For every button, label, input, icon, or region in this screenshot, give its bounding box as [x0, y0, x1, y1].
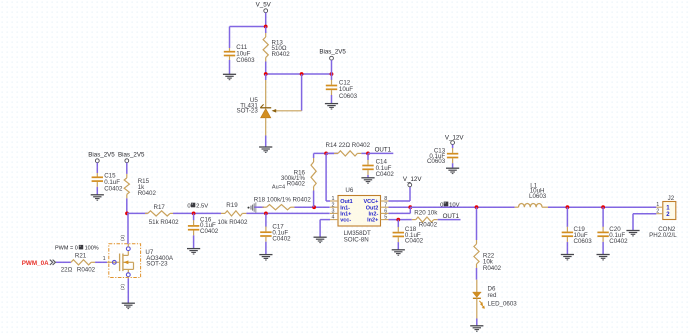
svg-text:In1+: In1+	[340, 212, 351, 218]
net label 0-10V	[440, 202, 460, 209]
junction LED branch	[475, 205, 479, 209]
LED D6	[473, 280, 485, 319]
op-amp U6 LM358DT body	[338, 196, 381, 227]
svg-text:SOT-23: SOT-23	[236, 108, 258, 115]
svg-text:SOIC-8N: SOIC-8N	[344, 236, 369, 243]
ground LED	[470, 326, 483, 331]
wire pin6 In2-	[389, 212, 411, 214]
wire pin4	[320, 219, 330, 221]
junction C17 tap	[264, 212, 268, 216]
wire Bias_2V5 rail	[266, 73, 332, 75]
ground C19	[561, 255, 574, 260]
svg-text:J2: J2	[668, 195, 675, 202]
ground C16	[187, 249, 200, 254]
probe marker on In1- net	[248, 202, 256, 212]
svg-text:In2+: In2+	[367, 218, 378, 224]
svg-text:OUT1: OUT1	[443, 213, 460, 220]
ground U7 source	[122, 303, 135, 308]
power port V_5V	[256, 2, 272, 13]
resistor R22	[474, 207, 479, 280]
svg-text:Out2: Out2	[366, 205, 379, 211]
svg-text:Au=4: Au=4	[272, 184, 285, 190]
power port Bias_2V5 top	[319, 49, 346, 61]
resistor R20	[406, 217, 441, 222]
svg-text:L0603: L0603	[529, 193, 547, 200]
svg-text:C0402: C0402	[405, 238, 424, 245]
ground C17	[259, 255, 272, 260]
svg-text:R0402: R0402	[483, 265, 502, 272]
svg-text:U6: U6	[345, 187, 353, 194]
svg-text:R18 100k/1% R0402: R18 100k/1% R0402	[254, 196, 312, 203]
wire rail to L1	[410, 206, 514, 208]
svg-text:R0402: R0402	[287, 181, 306, 188]
svg-text:Bias_2V5: Bias_2V5	[118, 151, 145, 158]
junction TL431 ref riser	[300, 72, 304, 76]
wire OUT1 stub bottom	[441, 219, 461, 221]
svg-text:R19: R19	[226, 202, 238, 209]
port chevrons PWM_0A	[50, 260, 56, 265]
svg-text:C0603: C0603	[236, 57, 255, 64]
svg-text:C0402: C0402	[609, 238, 628, 245]
wire L1 to CON2	[548, 206, 656, 208]
connector J2 body	[663, 202, 676, 220]
svg-text:1: 1	[103, 256, 106, 262]
svg-text:(3): (3)	[120, 235, 126, 241]
ground C18	[392, 250, 405, 255]
resistor R18	[262, 205, 295, 210]
svg-text:2: 2	[656, 208, 659, 214]
svg-text:1: 1	[332, 196, 335, 202]
svg-text:LED_0603: LED_0603	[488, 300, 518, 307]
junction C16 tap	[192, 212, 196, 216]
wire R16 top to R14	[314, 152, 338, 154]
inductor L1	[515, 204, 548, 208]
svg-text:2.5V: 2.5V	[196, 203, 208, 209]
svg-text:4: 4	[332, 215, 335, 221]
svg-text:R0402: R0402	[419, 221, 438, 228]
ground C20	[597, 255, 610, 260]
capacitor C16	[188, 213, 199, 248]
svg-text:Bias_2V5: Bias_2V5	[319, 49, 346, 56]
wire pin7 Out2	[389, 206, 411, 208]
svg-text:C0402: C0402	[376, 171, 395, 178]
svg-text:51k R0402: 51k R0402	[149, 219, 179, 226]
svg-text:Bias_2V5: Bias_2V5	[88, 151, 115, 158]
svg-text:VCC+: VCC+	[363, 199, 378, 205]
ground J2	[626, 231, 639, 236]
capacitor C12	[326, 74, 337, 104]
capacitor C20	[597, 207, 608, 254]
capacitor C17	[260, 213, 271, 254]
svg-text:PWM_0A: PWM_0A	[22, 260, 49, 267]
svg-text:R14 22Ω R0402: R14 22Ω R0402	[326, 142, 371, 149]
svg-text:vcc-: vcc-	[340, 218, 351, 224]
junction Out2/In2- feedback	[408, 205, 412, 209]
wire down to C11	[229, 27, 231, 49]
wire C11 to ground	[229, 60, 231, 74]
svg-text:R21: R21	[75, 252, 87, 259]
junction C18 tap	[396, 218, 400, 222]
wire feedback riser	[409, 207, 411, 213]
power port V_12V right	[445, 134, 464, 144]
wire TL431 anode to ground	[265, 136, 267, 148]
svg-text:7: 7	[384, 202, 387, 208]
svg-text:R0402: R0402	[77, 267, 96, 274]
wire R19 to U6 pin3	[247, 212, 330, 214]
U6 pin stubs right (pins 8,7,6,5)	[381, 201, 389, 220]
capacitor C18	[393, 220, 404, 250]
svg-text:R17: R17	[154, 204, 166, 211]
svg-text:10k R0402: 10k R0402	[218, 219, 248, 226]
svg-text:V_12V: V_12V	[445, 134, 464, 141]
wire to C11 branch	[230, 26, 266, 28]
junction Out1 riser	[324, 152, 328, 156]
wire port to C15	[96, 163, 98, 173]
junction C14/OUT1	[366, 152, 370, 156]
power port V_12V at pin8	[403, 176, 422, 187]
junction V_5V/R13/C11	[264, 25, 268, 29]
wire OUT1 stub	[368, 152, 393, 154]
ground C15	[91, 195, 104, 200]
svg-text:red: red	[488, 292, 498, 299]
svg-text:In2-: In2-	[369, 212, 379, 218]
svg-text:3: 3	[332, 209, 335, 215]
svg-text:V_12V: V_12V	[403, 176, 422, 183]
svg-text:R0402: R0402	[138, 190, 157, 197]
svg-text:100%: 100%	[85, 245, 99, 251]
resistor R21	[71, 260, 107, 265]
svg-text:C0402: C0402	[200, 228, 219, 235]
svg-text:In1-: In1-	[340, 205, 350, 211]
wire source to ground	[127, 279, 129, 304]
wire pin8 VCC+	[389, 200, 411, 202]
resistor R16	[311, 153, 316, 207]
resistor R13	[263, 27, 268, 75]
ground TL431	[259, 147, 272, 152]
svg-text:(2): (2)	[120, 284, 126, 290]
ground C11	[223, 74, 236, 79]
note label PWM = 0 to 100%	[55, 245, 99, 251]
wire pin5 In2+	[389, 219, 407, 221]
resistor R19	[220, 211, 248, 216]
ground C12	[325, 104, 338, 109]
capacitor C14	[362, 153, 373, 177]
svg-text:5: 5	[384, 215, 387, 221]
svg-text:R0402: R0402	[272, 51, 291, 58]
op-amp U5 TL431 shunt reference	[260, 74, 301, 136]
svg-text:C0603: C0603	[427, 158, 446, 165]
svg-text:C0402: C0402	[104, 186, 123, 193]
wire ref riser	[301, 74, 303, 111]
capacitor C11	[224, 48, 235, 60]
transistor U7 AO3400A	[107, 244, 141, 279]
wire probe to R18	[255, 206, 265, 208]
power port Bias_2V5 left 1	[88, 151, 115, 162]
J2 pin stubs	[656, 207, 663, 214]
wire V_5V down	[265, 13, 267, 27]
svg-text:PWM = 0: PWM = 0	[55, 245, 78, 251]
junction C20 tap	[601, 205, 605, 209]
wire J2 pin2	[633, 213, 656, 215]
svg-text:Out1: Out1	[340, 199, 353, 205]
junction C19 tap	[566, 205, 570, 209]
capacitor C15	[92, 173, 103, 195]
wire drain riser	[127, 213, 129, 243]
svg-text:R20 10k: R20 10k	[414, 209, 438, 216]
svg-text:8: 8	[384, 196, 387, 202]
junction Bias_2V5/C12	[330, 72, 334, 76]
svg-text:1: 1	[656, 202, 659, 208]
svg-text:SOT-23: SOT-23	[146, 261, 168, 268]
svg-text:OUT1: OUT1	[375, 146, 392, 153]
wire junction to R17	[127, 212, 148, 214]
svg-text:22Ω: 22Ω	[61, 267, 73, 274]
resistor R15	[124, 163, 129, 214]
junction R16/In1-	[312, 205, 316, 209]
wire pin8 riser to V_12V	[409, 187, 411, 201]
ground C14	[361, 178, 374, 183]
svg-text:C0603: C0603	[574, 238, 593, 245]
wire pin4 riser to ground	[319, 220, 321, 238]
svg-text:2: 2	[332, 202, 335, 208]
wire R17 to R19	[173, 212, 220, 214]
wire J2 pin2 riser to ground	[632, 214, 634, 231]
junction R15/R17/Q-drain	[125, 212, 129, 216]
ground C13	[446, 168, 459, 173]
svg-text:C0402: C0402	[272, 235, 291, 242]
resistor R17	[145, 211, 173, 216]
wire pin1 to riser	[326, 200, 330, 202]
capacitor C13	[447, 145, 458, 169]
wire R18 to U6 pin2	[295, 206, 330, 208]
svg-text:6: 6	[384, 209, 387, 215]
wire PWM to R21	[56, 261, 71, 263]
resistor R14	[326, 151, 368, 156]
svg-text:PH2.0/2/L: PH2.0/2/L	[649, 232, 677, 239]
svg-text:V_5V: V_5V	[256, 2, 272, 9]
junction R13/TL431	[264, 72, 268, 76]
svg-text:10V: 10V	[449, 202, 460, 208]
net label 0-2.5V	[187, 203, 208, 210]
wire riser to pin1	[325, 153, 327, 201]
ground U6 vcc-	[314, 237, 327, 242]
U6 pin stubs left (pins 1-4)	[330, 201, 338, 220]
capacitor C19	[562, 207, 573, 254]
svg-text:C0603: C0603	[339, 93, 358, 100]
wire LED to ground	[476, 319, 478, 326]
power port Bias_2V5 left 2	[118, 151, 145, 162]
wire Bias_2V5 port down	[331, 60, 333, 74]
